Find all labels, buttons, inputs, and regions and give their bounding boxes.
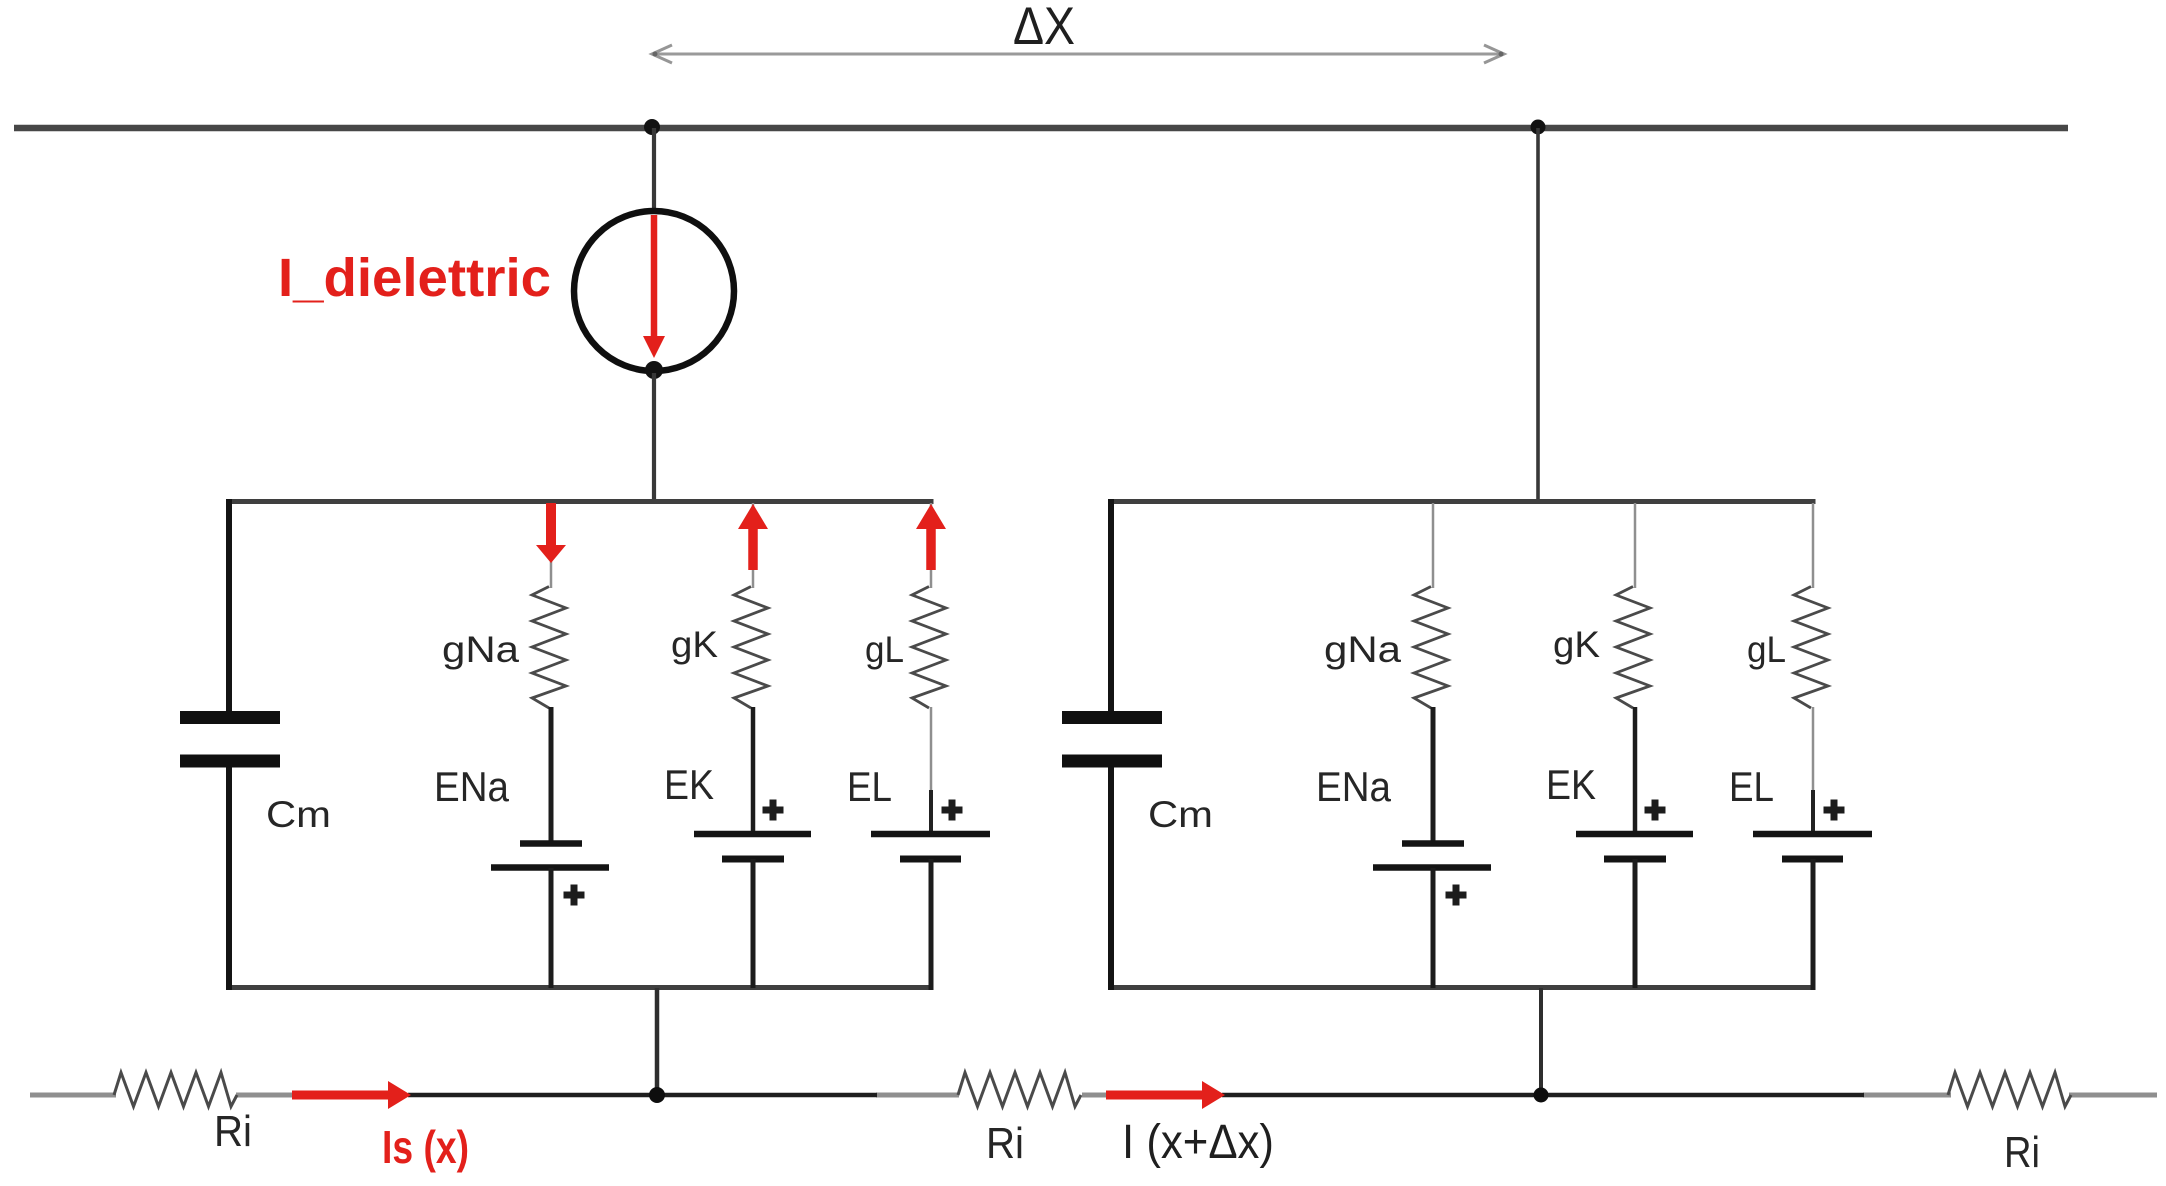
wire EL to box bottom (right edge) [1811,859,1816,990]
svg-text:gK: gK [671,624,718,665]
node A : top-left junction [644,119,660,135]
svg-text:gK: gK [1553,624,1600,665]
bottom rail dark segment right [1222,1093,1864,1098]
wire gL to EL [1812,707,1815,790]
svg-text:EL: EL [847,763,892,810]
resistor gL [1794,587,1828,709]
resistor gK [734,587,768,709]
svg-text:EL: EL [1729,763,1774,810]
delta-X dimension arrow [652,45,1504,63]
box left edge / capacitor branch [1108,499,1114,711]
wire gK to EK [751,707,756,835]
red arrow: IL (up) [916,504,946,529]
plus EK [1645,800,1666,821]
gK branch wire (top) [752,503,755,588]
svg-text:ΔX: ΔX [1013,0,1075,56]
resistor Ri (right) [1948,1073,2071,1107]
svg-text:EK: EK [664,761,714,808]
battery EL [871,831,990,838]
node : current source bottom [645,361,663,379]
resistor gNa [1414,587,1448,709]
wire ENa to box bottom [549,868,554,988]
wire gNa to ENa [1431,707,1436,845]
wire: current source to membrane patch 1 [652,373,656,504]
wire: patch1 bottom to inner rail [655,988,660,1095]
wire EK to box bottom [751,859,756,988]
svg-text:I (x+Δx): I (x+Δx) [1122,1116,1274,1169]
node B : top-right junction [1531,120,1546,135]
gNa branch wire (top) [1432,503,1435,588]
svg-text:gNa: gNa [1324,629,1401,670]
svg-text:gNa: gNa [442,629,519,670]
wire EK to box bottom [1633,859,1638,988]
plus EL [1824,800,1845,821]
bottom inner rail segments (gray) [30,1093,116,1098]
svg-text:ENa: ENa [434,763,510,810]
wire: top rail to current source [652,128,656,213]
plus EL [942,800,963,821]
svg-text:Ri: Ri [214,1107,252,1156]
svg-text:ENa: ENa [1316,763,1392,810]
wire: right top rail to membrane patch 2 [1536,128,1540,503]
red arrow: IK (up) [738,504,768,529]
svg-text:I_dielettric: I_dielettric [278,248,551,308]
svg-text:Cm: Cm [266,794,331,835]
battery EL [1753,831,1872,838]
gL branch wire (top) [930,503,933,588]
resistor Ri (middle) [958,1073,1081,1107]
svg-text:gL: gL [1747,629,1786,670]
resistor Ri (left) [114,1073,237,1107]
gL branch wire (top) [1812,503,1815,588]
wire gL to EL [930,707,933,790]
svg-text:Is (x): Is (x) [382,1121,469,1173]
battery EK [694,831,811,838]
red arrow: INa (down) [546,503,556,546]
box left edge / capacitor branch [226,499,232,711]
membrane patch box top edge [1109,499,1816,504]
svg-text:Ri: Ri [2004,1128,2040,1177]
capacitor Cm plates [1062,711,1162,724]
resistor gNa [532,587,566,709]
resistor gL [912,587,946,709]
gNa branch wire (top) [550,503,553,588]
red arrow Is(x) [292,1091,390,1100]
gK branch wire (top) [1634,503,1637,588]
current source I_dielettric (circle) [574,211,734,371]
node: inner rail right junction [1534,1088,1549,1103]
wire gK to EK [1633,707,1638,835]
svg-text:Ri: Ri [986,1119,1024,1168]
svg-text:Cm: Cm [1148,794,1213,835]
top rail (outside medium) [14,125,2068,132]
membrane patch box bottom edge [1109,985,1816,990]
resistor gK [1616,587,1650,709]
svg-text:gL: gL [865,629,904,670]
svg-text:EK: EK [1546,761,1596,808]
plus ENa [1446,885,1467,906]
battery ENa [1402,840,1464,847]
red arrow I(x+dx) [1106,1091,1204,1100]
plus ENa [564,885,585,906]
capacitor Cm plates [180,711,280,724]
node: inner rail left junction [649,1087,665,1103]
red arrow inside current source [651,215,658,340]
wire EL to box bottom (right edge) [929,859,934,990]
wire gNa to ENa [549,707,554,845]
wire: patch2 bottom to inner rail [1539,988,1543,1095]
bottom rail dark segment left [408,1093,877,1098]
battery ENa [520,840,582,847]
membrane patch box bottom edge [227,985,934,990]
membrane patch box top edge [227,499,934,504]
wire ENa to box bottom [1431,868,1436,988]
plus EK [763,800,784,821]
battery EK [1576,831,1693,838]
